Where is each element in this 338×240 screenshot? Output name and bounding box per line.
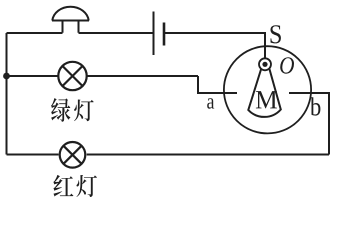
label 绿灯 (green lamp) bbox=[51, 98, 94, 122]
lamp (green) circle-X bbox=[58, 62, 86, 90]
label b (right contact) bbox=[310, 97, 320, 115]
pendulum wedge M bbox=[248, 69, 280, 117]
wire: bottom run left of red lamp bbox=[7, 154, 59, 156]
junction node on left bus bbox=[3, 73, 10, 80]
contact a lead (inside housing) bbox=[198, 76, 237, 93]
battery cell: long positive plate bbox=[153, 12, 155, 56]
wire: green lamp to contact a bbox=[88, 75, 199, 77]
label S (top terminal) bbox=[270, 25, 280, 43]
lamp (red) circle-X bbox=[60, 142, 86, 168]
electric bell (dome) bbox=[52, 7, 89, 33]
label O (pivot) bbox=[280, 57, 294, 73]
wire: junction to green lamp bbox=[7, 75, 58, 77]
pivot O (bearing) bbox=[259, 58, 271, 70]
wire: bell to battery bbox=[79, 32, 153, 34]
pivot center dot bbox=[262, 62, 267, 67]
label a (left contact) bbox=[207, 98, 214, 108]
contact b lead (inside housing) bbox=[289, 93, 329, 155]
wire: left vertical bus bbox=[6, 33, 8, 155]
wire: top run from left bus to bell bbox=[7, 32, 63, 34]
wire: battery to contact S bbox=[165, 33, 265, 59]
label 红灯 (red lamp) bbox=[53, 175, 97, 197]
label M bbox=[256, 91, 277, 108]
battery cell: short negative plate bbox=[163, 23, 166, 46]
rotary switch housing circle bbox=[224, 46, 311, 133]
wire: bottom run red lamp to contact b drop bbox=[87, 154, 329, 156]
